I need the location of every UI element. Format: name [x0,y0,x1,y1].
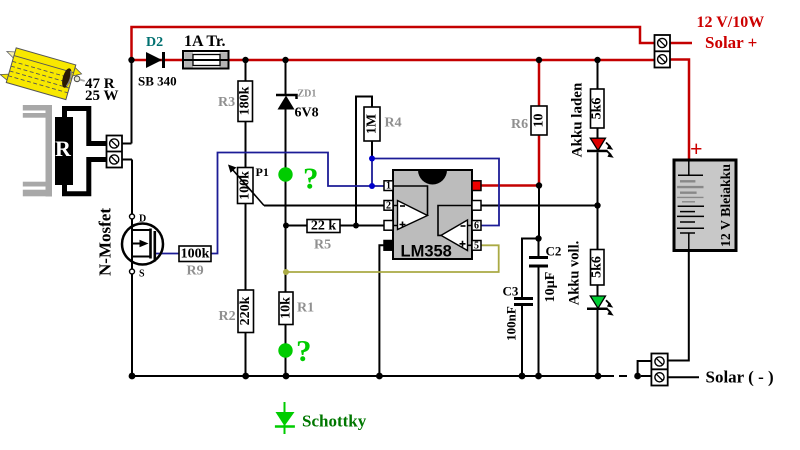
svg-text:Akku laden: Akku laden [570,82,586,157]
svg-text:R2: R2 [219,309,236,324]
svg-text:5: 5 [474,240,479,251]
svg-text:2: 2 [386,200,391,211]
svg-text:12 V Bleiakku: 12 V Bleiakku [718,164,733,247]
svg-text:C2: C2 [546,244,562,259]
svg-text:10: 10 [532,114,547,128]
svg-text:R1: R1 [297,301,314,316]
svg-text:6: 6 [474,220,479,231]
svg-text:220k: 220k [238,296,253,325]
svg-text:R6: R6 [511,117,528,132]
svg-text:S: S [139,269,145,280]
svg-text:180k: 180k [238,86,253,115]
svg-text:C3: C3 [503,284,519,299]
svg-text:LM358: LM358 [401,243,452,261]
svg-text:Akku voll.: Akku voll. [567,241,583,305]
svg-text:?: ? [303,161,319,196]
svg-text:5k6: 5k6 [590,256,605,278]
svg-text:+: + [690,136,703,161]
svg-text:12 V/10W: 12 V/10W [697,14,765,31]
svg-text:?: ? [296,333,312,368]
svg-text:D2: D2 [146,35,163,50]
svg-text:1M: 1M [365,114,380,134]
svg-text:6V8: 6V8 [295,106,319,121]
svg-text:22 k: 22 k [311,219,337,234]
svg-text:100nF: 100nF [504,306,519,341]
svg-text:100k: 100k [181,247,210,262]
svg-text:Schottky: Schottky [302,412,367,431]
svg-text:100k: 100k [238,171,253,200]
svg-text:10µF: 10µF [543,272,558,303]
svg-text:N-Mosfet: N-Mosfet [96,208,115,276]
svg-text:R: R [55,136,72,161]
svg-text:1A Tr.: 1A Tr. [184,33,226,50]
svg-text:D: D [139,214,146,225]
svg-text:1: 1 [386,181,391,192]
svg-text:R4: R4 [385,116,402,131]
svg-text:ZD1: ZD1 [298,89,317,100]
svg-text:Solar +: Solar + [705,33,757,52]
svg-text:R9: R9 [187,264,204,279]
svg-text:R3: R3 [218,95,235,110]
svg-text:P1: P1 [256,165,269,179]
svg-text:Solar ( - ): Solar ( - ) [706,368,774,387]
svg-text:R5: R5 [314,238,331,253]
svg-text:10k: 10k [279,297,294,319]
svg-text:25 W: 25 W [85,88,118,104]
svg-text:SB 340: SB 340 [138,74,177,89]
svg-text:5k6: 5k6 [590,98,605,120]
